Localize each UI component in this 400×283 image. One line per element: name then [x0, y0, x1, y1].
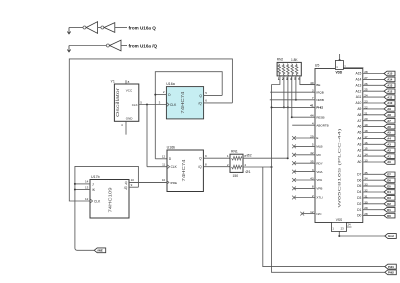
svg-text:44: 44 — [310, 114, 314, 118]
svg-text:A5: A5 — [357, 131, 361, 135]
svg-text:CLK: CLK — [94, 199, 101, 203]
svg-text:/PRE: /PRE — [170, 181, 177, 185]
svg-text:D5: D5 — [357, 184, 361, 188]
svg-text:D3: D3 — [357, 196, 361, 200]
svg-text:A6: A6 — [357, 125, 361, 129]
svg-text:15: 15 — [364, 147, 368, 151]
svg-text:VDA: VDA — [316, 170, 322, 174]
svg-text:24: 24 — [364, 94, 368, 98]
svg-text:GND: GND — [126, 117, 134, 121]
svg-text:MX: MX — [316, 153, 321, 157]
svg-text:10: 10 — [162, 178, 166, 182]
svg-text:26: 26 — [364, 82, 368, 86]
svg-text:A2: A2 — [357, 148, 361, 152]
svg-text:11: 11 — [162, 163, 165, 167]
svg-text:RDY: RDY — [316, 161, 322, 165]
svg-text:A1: A1 — [357, 154, 361, 158]
svg-text:PHI2: PHI2 — [388, 271, 394, 275]
svg-text:3: 3 — [312, 89, 314, 93]
svg-text:1: 1 — [278, 77, 280, 81]
svg-text:A8: A8 — [357, 113, 361, 117]
svg-text:30: 30 — [364, 200, 368, 204]
svg-text:VPA: VPA — [316, 178, 322, 182]
svg-text:23: 23 — [364, 100, 368, 104]
svg-text:21: 21 — [364, 111, 368, 115]
svg-text:A4: A4 — [387, 137, 391, 141]
svg-text:Ø2: Ø2 — [247, 154, 252, 158]
svg-text:D0: D0 — [387, 214, 391, 218]
svg-text:from U16a Q: from U16a Q — [129, 25, 157, 30]
svg-text:VDD: VDD — [336, 71, 343, 75]
svg-text:E: E — [316, 136, 318, 140]
svg-text:A8: A8 — [387, 113, 391, 117]
svg-text:23: 23 — [341, 226, 345, 230]
svg-text:PHI1: PHI1 — [388, 265, 394, 269]
svg-text:A12: A12 — [387, 89, 393, 93]
svg-text:A5: A5 — [387, 131, 391, 135]
svg-text:13: 13 — [364, 159, 368, 163]
svg-text:74HC74: 74HC74 — [180, 91, 185, 114]
svg-text:5: 5 — [312, 143, 314, 147]
svg-text:28: 28 — [364, 70, 368, 74]
svg-text:33: 33 — [364, 183, 368, 187]
svg-text:32: 32 — [364, 189, 368, 193]
svg-text:40: 40 — [310, 81, 314, 85]
svg-text:A9: A9 — [387, 107, 391, 111]
svg-text:24: 24 — [348, 223, 352, 227]
svg-text:/Q: /Q — [198, 101, 202, 105]
svg-text:CLK: CLK — [132, 103, 138, 107]
svg-text:D4: D4 — [357, 190, 361, 194]
svg-text:D2: D2 — [387, 202, 391, 206]
svg-text:D1: D1 — [387, 208, 391, 212]
svg-text:A12: A12 — [356, 89, 362, 93]
svg-text:A10: A10 — [387, 101, 393, 105]
svg-text:/Q: /Q — [198, 165, 202, 169]
svg-text:17: 17 — [364, 135, 368, 139]
svg-text:7: 7 — [312, 96, 314, 100]
svg-text:RESB: RESB — [316, 115, 324, 119]
svg-text:A1: A1 — [387, 154, 391, 158]
svg-text:A0: A0 — [387, 160, 391, 164]
svg-text:VSS: VSS — [336, 218, 342, 222]
svg-text:RN2: RN2 — [277, 57, 284, 61]
svg-text:D7: D7 — [357, 172, 361, 176]
svg-text:A15: A15 — [387, 72, 393, 76]
svg-text:XTLI: XTLI — [316, 196, 323, 200]
svg-text:A14: A14 — [387, 78, 393, 82]
svg-text:A11: A11 — [356, 95, 362, 99]
svg-text:8: 8 — [312, 185, 314, 189]
svg-text:19: 19 — [364, 123, 368, 127]
svg-text:35: 35 — [310, 160, 314, 164]
svg-text:A13: A13 — [356, 83, 362, 87]
svg-text:16: 16 — [364, 141, 368, 145]
svg-text:VPB: VPB — [316, 187, 322, 191]
svg-text:20: 20 — [364, 117, 368, 121]
svg-text:74HC74: 74HC74 — [181, 159, 186, 182]
svg-text:W65C816S (PLCC-44): W65C816S (PLCC-44) — [337, 127, 342, 207]
svg-text:A7: A7 — [387, 119, 391, 123]
svg-text:NMIB: NMIB — [316, 98, 324, 102]
svg-text:1.8K: 1.8K — [291, 58, 298, 62]
svg-text:43: 43 — [310, 176, 314, 180]
svg-text:42: 42 — [310, 151, 314, 155]
svg-text:A2: A2 — [387, 148, 391, 152]
svg-text:U5: U5 — [315, 63, 320, 67]
svg-text:2: 2 — [312, 194, 314, 198]
svg-text:34: 34 — [364, 177, 368, 181]
svg-text:RN1: RN1 — [231, 150, 238, 154]
svg-text:A4: A4 — [357, 137, 361, 141]
svg-text:A14: A14 — [356, 78, 362, 82]
svg-text:VCC: VCC — [126, 89, 133, 93]
svg-text:A11: A11 — [387, 95, 392, 99]
svg-text:D1: D1 — [357, 208, 361, 212]
svg-text:Y1: Y1 — [111, 80, 115, 84]
svg-text:CLK: CLK — [170, 103, 177, 107]
svg-text:13: 13 — [85, 185, 89, 189]
svg-text:25: 25 — [364, 88, 368, 92]
svg-text:U17b: U17b — [91, 175, 100, 179]
svg-text:14: 14 — [85, 180, 89, 184]
svg-text:A0: A0 — [357, 160, 361, 164]
svg-text:N/C: N/C — [316, 212, 322, 216]
svg-text:Gnd: Gnd — [388, 234, 394, 238]
svg-text:U16b: U16b — [167, 146, 176, 150]
svg-text:A15: A15 — [356, 72, 362, 76]
svg-text:Oscillator: Oscillator — [115, 87, 120, 117]
svg-text:/WE: /WE — [97, 249, 103, 253]
svg-text:35: 35 — [364, 171, 368, 175]
svg-text:150: 150 — [233, 174, 239, 178]
svg-text:29: 29 — [364, 206, 368, 210]
svg-text:Ø1: Ø1 — [246, 170, 251, 174]
svg-text:/Q: /Q — [124, 186, 128, 190]
svg-text:MLB: MLB — [316, 145, 322, 149]
svg-text:A9: A9 — [357, 107, 361, 111]
svg-text:A3: A3 — [387, 143, 391, 147]
svg-text:22: 22 — [364, 105, 368, 109]
svg-text:A10: A10 — [356, 101, 362, 105]
svg-text:10: 10 — [131, 178, 135, 182]
svg-text:D6: D6 — [357, 178, 361, 182]
svg-text:14: 14 — [364, 153, 368, 157]
svg-text:CLK: CLK — [171, 165, 178, 169]
svg-text:D6: D6 — [387, 178, 391, 182]
svg-text:41: 41 — [310, 104, 314, 108]
svg-text:74HC109: 74HC109 — [108, 187, 113, 213]
svg-text:U16a: U16a — [166, 82, 175, 86]
svg-text:28: 28 — [364, 212, 368, 216]
svg-text:IRQB: IRQB — [316, 90, 323, 94]
svg-text:12: 12 — [162, 155, 166, 159]
svg-text:12: 12 — [310, 210, 314, 214]
svg-text:D7: D7 — [387, 173, 391, 177]
svg-text:D5: D5 — [387, 184, 391, 188]
svg-text:D0: D0 — [357, 214, 361, 218]
svg-text:from U16a /Q: from U16a /Q — [129, 43, 158, 48]
svg-text:A7: A7 — [357, 119, 361, 123]
svg-text:A13: A13 — [387, 84, 393, 88]
svg-text:3: 3 — [312, 168, 314, 172]
svg-text:27: 27 — [364, 76, 368, 80]
svg-text:BE: BE — [316, 83, 320, 87]
svg-text:29: 29 — [310, 134, 314, 138]
svg-text:18: 18 — [364, 129, 368, 133]
svg-text:12: 12 — [85, 197, 89, 201]
svg-text:ABORTB: ABORTB — [316, 123, 328, 127]
svg-text:PHI2: PHI2 — [316, 106, 323, 110]
svg-text:31: 31 — [364, 194, 368, 198]
svg-text:A6: A6 — [387, 125, 391, 129]
svg-text:D2: D2 — [357, 202, 361, 206]
svg-text:4: 4 — [312, 122, 314, 126]
svg-text:A3: A3 — [357, 142, 361, 146]
svg-text:D4: D4 — [387, 190, 391, 194]
svg-text:D3: D3 — [387, 196, 391, 200]
